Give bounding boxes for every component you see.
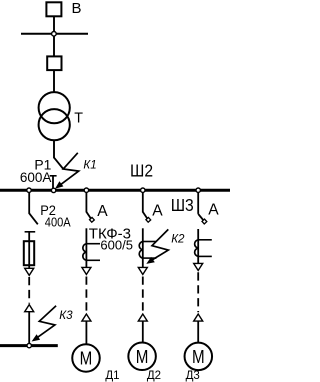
- wire to motor D1: [85, 321, 87, 345]
- feeder A1 wire: [85, 192, 87, 212]
- breaker A3 blade: [198, 214, 203, 220]
- svg-text:600А: 600А: [20, 170, 52, 185]
- switch box B (top square): [46, 2, 61, 16]
- wire to motor D2: [142, 321, 144, 343]
- cable arrow down A1: [82, 267, 91, 274]
- P1 fixed contact tick: [50, 175, 57, 177]
- svg-text:Д3: Д3: [186, 370, 200, 382]
- wire crossbar to square 2: [53, 36, 55, 56]
- motor D1 circle: [72, 344, 100, 372]
- svg-text:600/5: 600/5: [100, 237, 133, 252]
- svg-text:Ш3: Ш3: [171, 195, 194, 215]
- cable arrow down A3: [194, 263, 203, 270]
- square 2: [47, 56, 61, 70]
- wire P2 contact to fuse and through: [28, 232, 30, 269]
- svg-text:К1: К1: [83, 158, 96, 171]
- feeder P2 wire from bus: [28, 192, 30, 214]
- cable arrow up A2: [138, 314, 147, 321]
- wire transformer to P1: [53, 140, 55, 158]
- CT3 secondary ticks: [198, 239, 212, 241]
- svg-text:Д2: Д2: [147, 370, 161, 382]
- CT2 primary wire: [142, 228, 144, 267]
- transformer T circle 1: [39, 92, 70, 123]
- feeders A1 A2 A3: [72, 192, 212, 372]
- svg-text:Т: Т: [74, 111, 83, 127]
- svg-text:А: А: [97, 203, 108, 220]
- transformer T circle 2: [39, 109, 70, 140]
- cable arrow down (feeder P2): [25, 268, 34, 275]
- svg-text:К3: К3: [59, 309, 73, 322]
- svg-text:В: В: [72, 0, 82, 17]
- CT3 winding arcs: [195, 240, 199, 257]
- wire to lower board: [28, 312, 30, 345]
- svg-text:М: М: [136, 346, 149, 367]
- breaker A3 tip square: [202, 219, 207, 224]
- breaker A2 tip square: [146, 217, 151, 222]
- node transformer tap: [51, 188, 55, 192]
- svg-text:М: М: [80, 348, 93, 369]
- CT2 secondary ticks: [143, 241, 157, 243]
- K3 arrowhead: [32, 334, 40, 341]
- K1 arrowhead: [55, 181, 63, 189]
- K2 arrowhead: [146, 257, 155, 264]
- svg-text:М: М: [192, 347, 205, 368]
- node A3 tap: [196, 188, 200, 192]
- wire to motor D3: [197, 321, 199, 343]
- svg-text:А: А: [208, 201, 219, 218]
- feeder A3 wire: [197, 192, 199, 214]
- fault arrow K2 polyline: [149, 229, 168, 261]
- breaker A2 blade: [143, 212, 147, 218]
- breaker A1 blade: [86, 212, 90, 218]
- dashed cable A3: [197, 272, 199, 312]
- lower switchboard bar: [0, 344, 58, 347]
- P2 fixed contact tick: [25, 231, 36, 233]
- CT1 winding arcs: [83, 244, 87, 261]
- cable arrow up A1: [82, 314, 91, 321]
- cable arrow down A2: [138, 267, 147, 274]
- cable arrow up A3: [194, 314, 203, 321]
- feeder A2 wire: [142, 192, 144, 212]
- node A1 tap: [84, 188, 88, 192]
- motor D2 circle: [128, 343, 156, 371]
- dashed cable A2: [142, 277, 144, 313]
- P1 contact stub to bus: [52, 176, 54, 190]
- node A2 tap: [141, 188, 145, 192]
- CT1 primary wire: [85, 228, 87, 267]
- motor D3 circle: [185, 343, 213, 371]
- CT2 winding arcs: [139, 242, 143, 259]
- bus Sh2: [0, 189, 230, 192]
- wire from B down to crossbar: [53, 16, 55, 34]
- node circle on crossbar: [52, 32, 57, 37]
- dashed cable run (feeder P2): [28, 277, 30, 304]
- CT1 secondary ticks: [86, 243, 100, 245]
- crossbar line: [21, 33, 88, 35]
- breaker A1 tip square: [89, 217, 94, 222]
- svg-text:А: А: [152, 203, 163, 220]
- svg-text:400А: 400А: [45, 215, 72, 230]
- fault arrow K3 polyline: [35, 306, 57, 340]
- switch P2 blade: [29, 213, 38, 224]
- fuse FU rectangle: [24, 241, 34, 265]
- wire square 2 to transformer: [53, 70, 55, 92]
- cable arrow up (feeder P2): [25, 305, 34, 312]
- disconnector P1 blade: [54, 158, 63, 169]
- bus junction nodes: [27, 188, 201, 193]
- node P2 tap: [27, 188, 31, 192]
- svg-text:Д1: Д1: [105, 370, 119, 382]
- svg-text:Ш2: Ш2: [130, 160, 153, 180]
- CT3 primary wire: [197, 229, 199, 264]
- dashed cable A1: [85, 277, 87, 313]
- svg-text:К2: К2: [171, 232, 185, 245]
- junction node on lower bar: [27, 343, 31, 347]
- fault arrow K1 polyline: [58, 153, 78, 187]
